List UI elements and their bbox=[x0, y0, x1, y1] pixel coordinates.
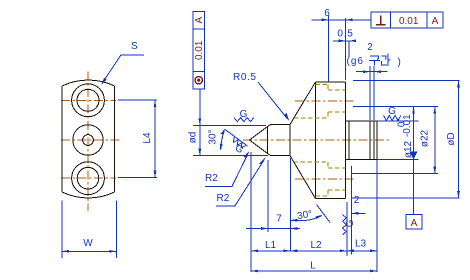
centerline bottom hole axis bbox=[295, 178, 355, 180]
dimension 2 bottom bbox=[351, 166, 365, 255]
surface finish symbol tip bbox=[234, 109, 254, 122]
centerline main axis bbox=[243, 139, 391, 141]
dimension od bbox=[188, 89, 269, 156]
dimension W bbox=[62, 201, 116, 259]
datum A box bbox=[406, 215, 422, 230]
hidden top hole bore bbox=[328, 90, 346, 112]
svg-text:øD: øD bbox=[446, 132, 457, 145]
svg-text:A: A bbox=[194, 17, 205, 24]
hole bottom bore circle bbox=[77, 167, 99, 189]
right shaft bbox=[346, 121, 377, 160]
svg-text:A: A bbox=[432, 16, 439, 27]
dimension 7 bbox=[246, 158, 300, 251]
svg-text:ø12: ø12 bbox=[403, 140, 414, 158]
svg-text:L3: L3 bbox=[355, 239, 367, 250]
svg-text:L1: L1 bbox=[265, 240, 277, 251]
svg-text:L2: L2 bbox=[310, 240, 322, 251]
svg-text:S: S bbox=[131, 41, 138, 52]
svg-text:(g6: (g6 bbox=[347, 56, 364, 67]
tip cone bbox=[250, 124, 272, 155]
svg-text:): ) bbox=[398, 57, 401, 68]
groove lines bbox=[370, 121, 374, 160]
label S leader bbox=[101, 41, 144, 85]
label R2 second bbox=[216, 158, 266, 206]
dimension 30 degree cone bbox=[290, 205, 330, 223]
dimension o22 bbox=[352, 107, 438, 174]
svg-text:A: A bbox=[411, 218, 418, 229]
hidden top hole counterbore bbox=[294, 84, 328, 118]
hidden bottom hole bore bbox=[328, 168, 346, 190]
svg-text:2: 2 bbox=[367, 42, 373, 53]
big cylinder bbox=[315, 82, 345, 198]
centerline vertical plate bbox=[87, 72, 89, 212]
surface finish symbol shaft bbox=[384, 106, 401, 120]
svg-text:L: L bbox=[310, 261, 316, 272]
hole bottom counterbore circle bbox=[72, 162, 105, 195]
cone flank bbox=[290, 82, 315, 198]
centerline top hole axis bbox=[295, 100, 355, 102]
centerline hole middle bbox=[61, 139, 120, 141]
dimension 0.5 bbox=[333, 29, 356, 58]
plate outline bbox=[62, 80, 115, 198]
hole middle small circle bbox=[83, 135, 94, 146]
svg-text:L4: L4 bbox=[142, 132, 153, 144]
svg-text:7: 7 bbox=[276, 214, 282, 225]
svg-text:W: W bbox=[83, 238, 93, 249]
dimension 6 bbox=[312, 8, 371, 82]
label R2 first bbox=[205, 151, 250, 187]
svg-text:2: 2 bbox=[354, 195, 360, 206]
dimension 30 degree tip bbox=[208, 128, 248, 151]
svg-text:30°: 30° bbox=[208, 129, 219, 144]
surface finish symbol tilted bbox=[227, 137, 247, 156]
svg-text:0.01: 0.01 bbox=[194, 40, 205, 60]
svg-text:0.01: 0.01 bbox=[399, 16, 419, 27]
dimension L bbox=[251, 261, 377, 273]
surface finish symbol rotated bottom bbox=[343, 215, 357, 235]
small cylinder bbox=[271, 124, 291, 155]
svg-text:R2: R2 bbox=[217, 193, 230, 204]
label R0.5 leader bbox=[233, 72, 290, 122]
hole top counterbore circle bbox=[72, 84, 105, 117]
hole top bore circle bbox=[77, 89, 99, 111]
centerline hole top bbox=[61, 99, 116, 101]
svg-text:0.5: 0.5 bbox=[337, 29, 353, 40]
svg-text:ø22: ø22 bbox=[420, 129, 431, 147]
dimension o12 bbox=[377, 107, 419, 215]
label g6 section korean bbox=[347, 54, 401, 68]
svg-text:6: 6 bbox=[324, 8, 330, 19]
svg-text:R2: R2 bbox=[205, 173, 218, 184]
dimension 2 groove bbox=[356, 42, 388, 120]
concentricity feature frame bbox=[193, 11, 205, 88]
dimension oD bbox=[352, 80, 460, 198]
feature control frame perpendicularity bbox=[371, 12, 443, 28]
dimension L1 L2 L3 row bbox=[251, 152, 377, 272]
hole middle outer circle bbox=[73, 125, 103, 155]
dimension L4 bbox=[118, 100, 157, 177]
svg-text:R0.5: R0.5 bbox=[233, 72, 257, 83]
svg-text:ød: ød bbox=[188, 132, 199, 144]
centerline hole bottom bbox=[61, 177, 116, 179]
hidden bottom hole counterbore bbox=[294, 162, 328, 196]
svg-text:-0.01: -0.01 bbox=[402, 114, 413, 137]
